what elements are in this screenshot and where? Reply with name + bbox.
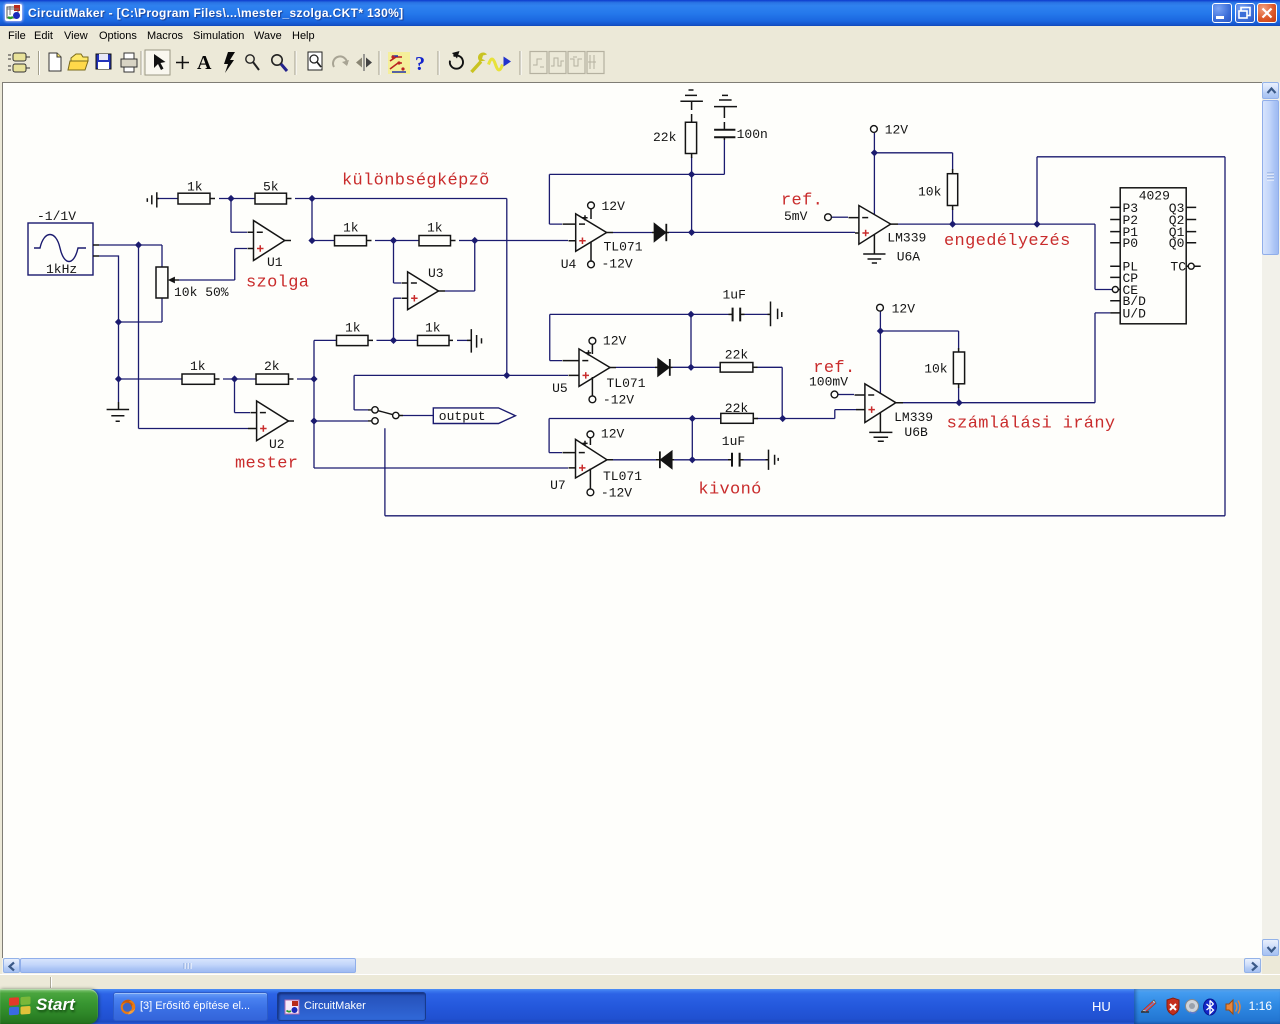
U3 input pin dashes: [402, 283, 446, 298]
wire junction 17: [687, 364, 694, 371]
resistor R9 22k: [721, 413, 754, 423]
wire R3b to node D: [459, 240, 475, 242]
source pin stubs: [93, 245, 99, 256]
svg-text:?: ?: [415, 53, 425, 75]
terminal +12V U6B: [877, 304, 884, 311]
wire junction 7: [390, 237, 397, 244]
wire junction 22: [949, 221, 956, 228]
pot wiper arrow: [174, 279, 179, 281]
wire junction 3: [115, 375, 122, 382]
wire U5 feedback loop: [550, 314, 691, 360]
svg-text:1k: 1k: [343, 221, 359, 236]
wire U2 out to switch bottom pole: [314, 420, 368, 422]
svg-text:LM339: LM339: [894, 410, 933, 425]
wire junction 16: [687, 311, 694, 318]
wire junction 12: [310, 417, 317, 424]
ground G7 inverted above C1: [714, 95, 737, 118]
svg-text:1uF: 1uF: [723, 288, 746, 303]
svg-text:1k: 1k: [345, 321, 361, 336]
svg-text:TC: TC: [1170, 260, 1186, 275]
wire junction 9: [390, 337, 397, 344]
svg-text:2k: 2k: [264, 359, 280, 374]
terminal ref 5mV: [825, 214, 832, 221]
wire junction 1: [135, 241, 142, 248]
R3 pin dashes: [367, 240, 456, 242]
wire U4 output to diode D1: [613, 232, 652, 234]
wire junction 2: [115, 318, 122, 325]
plus tool: [176, 56, 189, 69]
R4 pin dashes: [368, 339, 471, 341]
svg-text:22k: 22k: [653, 130, 677, 145]
R11 pin stubs: [691, 114, 693, 158]
ground G5 below U6B: [869, 413, 892, 442]
wire R5 to node E: [223, 378, 256, 380]
svg-text:4029: 4029: [1139, 188, 1170, 203]
svg-text:P0: P0: [1123, 236, 1139, 251]
terminal +12V U4: [588, 202, 595, 209]
wire U5 + input row: [354, 374, 568, 376]
op-amp U7 TL071: [576, 439, 608, 478]
svg-text:output: output: [439, 409, 486, 424]
wire node E down to U2 - input: [235, 379, 251, 413]
wire U7 feedback loop: [549, 419, 721, 453]
svg-text:TL071: TL071: [607, 376, 646, 391]
wire 10k R7 to U6A output: [952, 209, 954, 224]
terminal +12V U6A: [871, 126, 878, 133]
switch SW1 poles and lever: [368, 407, 403, 424]
wire R6 to U2 out node: [297, 378, 314, 380]
capacitor C2 1uF: [733, 308, 741, 322]
tray icon shield: [1167, 998, 1179, 1015]
wire junction 11: [310, 375, 317, 382]
R7 pin stubs: [952, 169, 954, 210]
ground G8 right of C2: [768, 302, 782, 327]
wire U2 out node down to U7 + input: [314, 379, 568, 468]
tray icon volume-grey: [1186, 1000, 1199, 1013]
op-amp U5 TL071: [579, 349, 610, 387]
terminal -12V U7: [587, 489, 594, 496]
svg-text:-12V: -12V: [601, 485, 632, 500]
resistor R3a 1k: [335, 236, 367, 246]
wire R1 to R2 via node: [219, 198, 255, 200]
svg-text:22k: 22k: [725, 401, 749, 416]
wire junction 6: [308, 237, 315, 244]
resistor R3b 1k: [419, 236, 451, 246]
svg-text:A: A: [197, 52, 212, 74]
R8 pin dash: [753, 366, 758, 368]
op-amp U2: [257, 401, 289, 441]
svg-text:U1: U1: [267, 255, 283, 270]
svg-text:számlálási irány: számlálási irány: [947, 415, 1116, 434]
svg-text:10k: 10k: [924, 362, 948, 377]
svg-text:1k: 1k: [187, 180, 203, 195]
wire junction 18: [689, 415, 696, 422]
wire U1 out row to R3a: [312, 240, 335, 242]
svg-text:22k: 22k: [725, 348, 749, 363]
wire U3 + input down to lower row: [394, 298, 402, 340]
wire 10k R10 to U6B output: [958, 388, 960, 403]
ground G3 (right rotated): [471, 329, 481, 353]
wire mester node to R5: [119, 378, 183, 380]
new doc: [49, 53, 61, 71]
resistor R4a 1k: [337, 335, 369, 345]
wire szolga node down to U1 output node: [311, 199, 313, 241]
svg-text:1k: 1k: [425, 321, 441, 336]
zoom: [272, 55, 282, 65]
comparator U6B LM339: [865, 384, 896, 423]
rotate (disabled): [333, 56, 347, 67]
svg-text:12V: 12V: [885, 122, 909, 137]
wire R9 to U6B + input: [757, 410, 857, 419]
terminal +12V U7: [587, 431, 594, 438]
wire R3a to R3b: [375, 240, 419, 242]
diode D3 reversed: [661, 451, 672, 468]
wire ground to R1: [159, 198, 178, 200]
svg-text:12V: 12V: [601, 426, 625, 441]
wire junction 10: [231, 375, 238, 382]
wire junction 5: [308, 195, 315, 202]
wire supply node to 10k R10: [880, 331, 958, 349]
svg-text:1k: 1k: [427, 221, 443, 236]
R10 pin stubs: [958, 348, 960, 388]
wire mester node to ground: [118, 379, 120, 402]
svg-text:U6B: U6B: [904, 425, 928, 440]
resistor R5 1k: [182, 374, 215, 384]
op-amp U3: [408, 272, 439, 310]
U1 input pin dashes: [248, 232, 292, 248]
svg-text:12V: 12V: [603, 334, 627, 349]
resistor R11 22k vertical: [685, 122, 696, 153]
svg-text:Q0: Q0: [1169, 236, 1185, 251]
wire junction 19: [689, 456, 696, 463]
wire U5 row to switch top pole: [354, 375, 368, 410]
svg-text:5mV: 5mV: [784, 209, 808, 224]
svg-text:-12V: -12V: [603, 393, 634, 408]
arrow tool (pressed): [145, 50, 170, 75]
wire junction 23: [1033, 221, 1040, 228]
tray icon speaker: [1226, 1000, 1233, 1014]
save floppy: [96, 54, 111, 69]
wire switch common to output connector: [403, 415, 433, 417]
svg-text:U/D: U/D: [1123, 306, 1147, 321]
wire junction 4: [227, 195, 234, 202]
wire junction 8: [471, 237, 478, 244]
4029 left pin stubs: [1110, 207, 1120, 313]
wire U4 feedback loop: [549, 140, 724, 224]
svg-text:LM339: LM339: [887, 231, 926, 246]
ground G4 below U6A: [863, 234, 885, 263]
wire R4a to R4b: [377, 339, 418, 341]
svg-text:12V: 12V: [602, 199, 626, 214]
wrench: [472, 62, 482, 73]
U4 pins and power: [563, 209, 614, 261]
wire supply node to 10k R7: [874, 153, 952, 170]
mirror: [356, 58, 362, 68]
part bins icon: [13, 53, 26, 61]
svg-text:TL071: TL071: [604, 240, 643, 255]
wire D3 node up to 22k row: [691, 419, 693, 460]
svg-text:U3: U3: [428, 266, 444, 281]
wire 22k pulldown to diode node: [691, 157, 693, 232]
ground G2 main: [107, 402, 130, 421]
wire 1uF C2 to ground: [691, 313, 768, 315]
terminal -12V U4: [588, 261, 595, 268]
svg-text:10k: 10k: [918, 185, 942, 200]
wire junction 21: [871, 149, 878, 156]
wire node D down to U3 output: [445, 241, 475, 292]
open folder: [71, 54, 88, 61]
svg-text:1kHz: 1kHz: [46, 262, 77, 277]
resistor R1 1k: [178, 193, 210, 204]
wire U6B output to 4029 U/D: [903, 313, 1110, 403]
wire D2 node up to feedback node: [690, 314, 692, 367]
wire node C down to U3 - input: [394, 241, 402, 284]
signal source V1 -1/1V 1kHz: [28, 223, 93, 275]
U5 pins and power: [563, 345, 617, 396]
tray icon display: [1142, 1000, 1156, 1012]
svg-text:U6A: U6A: [897, 250, 921, 265]
wire ref 100mV terminal to U6B - input: [839, 394, 855, 396]
wire source bottom output down: [99, 256, 119, 322]
print: [121, 59, 137, 67]
svg-text:TL071: TL071: [603, 469, 642, 484]
ground G9 right of C3: [766, 450, 779, 470]
U2 input pin dashes: [248, 413, 294, 429]
potentiometer R-pot 10k 50%: [156, 267, 168, 298]
wire source signal down to U2 + input: [139, 245, 249, 429]
terminal -12V U5: [589, 396, 596, 403]
wire R4b to ground stub: [457, 339, 467, 341]
svg-text:5k: 5k: [263, 180, 279, 195]
wire junction 20: [779, 415, 786, 422]
R9 pin dash: [753, 418, 758, 420]
U6B pin dashes: [855, 395, 904, 410]
svg-text:ref.: ref.: [781, 192, 823, 211]
svg-text:12V: 12V: [892, 302, 916, 317]
svg-text:U4: U4: [561, 257, 577, 272]
wire 12V supply into U6A: [873, 133, 875, 215]
wire junction 13: [503, 372, 510, 379]
wire node B down to mester node: [118, 322, 120, 379]
waveform: [489, 59, 503, 70]
svg-text:-1/1V: -1/1V: [37, 209, 76, 224]
resistor R2 5k: [255, 193, 287, 204]
capacitor C3 1uF: [732, 453, 740, 467]
svg-text:U5: U5: [552, 381, 568, 396]
comparator U6A LM339: [859, 206, 891, 245]
svg-text:engedélyezés: engedélyezés: [944, 232, 1071, 251]
wire szolga out long feed to U5 row: [312, 199, 507, 376]
U6A pin dashes: [849, 218, 899, 233]
svg-text:ref.: ref.: [813, 359, 855, 378]
R5 R6 pin dashes: [215, 378, 294, 380]
resistor R8 22k: [720, 363, 753, 373]
terminal ref 100mV: [831, 391, 838, 398]
resistor R4b 1k: [418, 335, 450, 345]
wire lower row left leg: [314, 340, 337, 379]
tray icon bluetooth: [1204, 999, 1217, 1015]
wire U7 output to diode D3: [613, 459, 656, 461]
resistor R6 2k: [256, 374, 289, 384]
R1 R2 pin dashes: [210, 198, 292, 200]
op-amp U1: [254, 221, 285, 261]
wire 12V supply into U6B: [879, 311, 881, 394]
wire U6A output engedelyezes: [898, 224, 1112, 289]
4029 TC bubble and stub: [1188, 263, 1194, 269]
wire source top output to pot top: [99, 245, 162, 267]
op-amp U4 TL071: [576, 214, 607, 252]
wire junction 14: [688, 171, 695, 178]
svg-text:1k: 1k: [190, 359, 206, 374]
probe: [246, 55, 254, 63]
terminal +12V U5: [589, 338, 596, 345]
wire big loop from below switch: [385, 157, 1225, 516]
resistor R10 10k: [953, 352, 964, 384]
svg-text:U2: U2: [269, 437, 285, 452]
4029 right pin stubs: [1186, 207, 1196, 242]
wire junction 24: [877, 327, 884, 334]
resistor R7 10k: [947, 174, 957, 206]
svg-text:különbségképzõ: különbségképzõ: [342, 172, 490, 191]
wire R8 to down leg: [756, 367, 782, 418]
diode D2: [658, 359, 669, 376]
wire diode D1 node to U6A + input: [669, 231, 855, 233]
wire R2 to szolga out node: [295, 198, 312, 200]
svg-text:100n: 100n: [737, 127, 768, 142]
svg-text:-12V: -12V: [602, 257, 633, 272]
capacitor C1 100n: [714, 130, 735, 138]
wire U5 output to diode D2: [616, 366, 655, 368]
ground G1 (left, rotated): [147, 192, 159, 207]
wire junction 25: [956, 399, 963, 406]
svg-text:1uF: 1uF: [722, 434, 745, 449]
wire junction 15: [688, 229, 695, 236]
ground G6 inverted above R11: [680, 90, 703, 110]
U7 pins and power: [563, 438, 614, 489]
digital opts: [388, 52, 410, 74]
wire D2 node to 22k R8: [673, 366, 721, 368]
wire ref 5mV terminal to U6A - input: [832, 216, 848, 218]
wire D3 node to 1uF C3: [674, 459, 766, 461]
wire R1-R2 node down to U1 - input: [231, 199, 247, 233]
svg-text:10k 50%: 10k 50%: [174, 285, 229, 300]
4029 CE bubble: [1112, 287, 1118, 293]
wire node D to U4 + input: [475, 240, 568, 242]
svg-text:kivonó: kivonó: [698, 481, 761, 500]
IC U8 4029 counter: [1120, 188, 1186, 324]
zoom page: [308, 52, 322, 70]
reset: [450, 56, 463, 69]
diode D1: [654, 224, 665, 241]
svg-text:U7: U7: [550, 478, 566, 493]
svg-text:mester: mester: [235, 455, 298, 474]
wire pot wiper to U1 + input: [179, 249, 247, 281]
wire node B to pot bottom: [119, 298, 163, 322]
output connector: [433, 408, 515, 424]
bolt: [224, 52, 235, 73]
svg-text:szolga: szolga: [246, 274, 309, 293]
